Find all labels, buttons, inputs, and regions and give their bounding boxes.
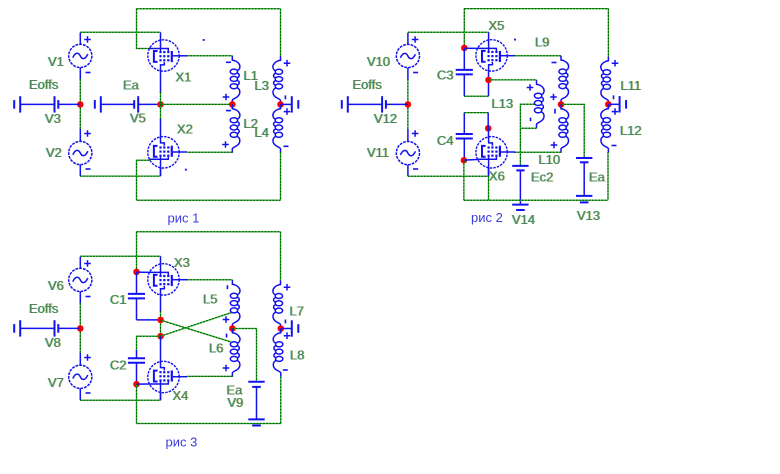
svg-text:V14: V14 (512, 212, 535, 227)
svg-text:V6: V6 (48, 278, 64, 293)
svg-text:V7: V7 (48, 375, 64, 390)
svg-text:X3: X3 (174, 255, 190, 270)
L5 minus tick (226, 285, 228, 289)
svg-text:X4: X4 (173, 388, 189, 403)
svg-text:L8: L8 (290, 348, 304, 363)
wire X1 cathode to node (160, 92, 162, 104)
node X4 grid / C2 bottom (133, 381, 140, 388)
wire V1 plus to X1 top pin (80, 31, 160, 33)
V11 plus mark (412, 130, 419, 137)
wire L2 bottom to X2 plate (231, 152, 233, 154)
wire L4 bottom down right edge (280, 152, 282, 200)
wire L13 bottom lead (520, 127, 536, 129)
capacitor C4 (456, 134, 473, 139)
wire X5 plate to L9 top (515, 55, 562, 57)
battery Ea/V9 short plate (252, 386, 261, 388)
source V10 bottom lead (407, 68, 409, 80)
node X5 cathode (485, 77, 492, 84)
wire L8 bottom down to bottom edge (280, 377, 282, 424)
battery plus mark fig1 (284, 108, 291, 115)
ac source V10 (396, 44, 419, 67)
inductor L1 (230, 56, 240, 104)
C2 top lead (136, 350, 138, 358)
V6 plus mark (84, 260, 91, 267)
tube X4 (flipped) (148, 360, 187, 400)
L8 minus mark (283, 369, 288, 371)
svg-text:C2: C2 (110, 358, 127, 373)
L2 plus mark (222, 141, 229, 148)
wire node B loop to C2 top (137, 336, 161, 351)
wire V1 minus to V2 plus (Eoffs node) (79, 79, 81, 130)
battery V14 long plate (512, 204, 528, 206)
V7 minus mark (86, 392, 91, 394)
source V11 top lead (407, 129, 409, 141)
source V1 top lead (79, 33, 81, 45)
inductor L11 (mirrored) (601, 56, 611, 104)
node L1/L2 centre tap (229, 101, 236, 108)
source V2 top lead (79, 129, 81, 141)
L13 plus mark (527, 84, 534, 91)
X5 grid lead stub (464, 47, 477, 49)
svg-text:L5: L5 (203, 292, 217, 307)
tube X5 (476, 32, 515, 72)
stray dot fig2 (514, 39, 516, 41)
ac source V7 (69, 365, 92, 388)
L3 minus tick (284, 95, 286, 99)
L7 plus mark (284, 284, 291, 291)
svg-text:Eoffs: Eoffs (29, 301, 59, 316)
L3 plus mark (284, 60, 291, 67)
battery minus tick fig2 (613, 95, 615, 99)
wire fig3 bottom edge (137, 423, 281, 425)
capacitor C1 (128, 294, 145, 299)
X6 grid lead stub (464, 159, 478, 162)
wire L6 bottom to X4 plate (187, 375, 232, 377)
V10 minus mark (413, 72, 418, 74)
V1 plus mark (84, 36, 91, 43)
source V7 top lead (79, 353, 81, 365)
X4 grid lead stub (137, 383, 150, 385)
wire tap row to Ea column (561, 104, 584, 158)
node Eoffs junction fig1 (77, 101, 84, 108)
wire fig2 left top vertical to grid node (463, 9, 465, 48)
L13 minus tick (530, 118, 532, 122)
wire diagonal node B to L5 bottom (161, 312, 232, 336)
tube X1 (148, 32, 187, 72)
wire V6 plus to X3 top pin (80, 255, 160, 257)
source V7 bottom lead (79, 389, 81, 401)
wire X6 cathode down to bottom edge (488, 176, 490, 200)
Ec2 to V14 lead (519, 170, 521, 204)
wire L13 mid tap to Ec2 column (520, 104, 534, 166)
wire fig2 top edge (464, 8, 608, 10)
wire fig1 right edge top (to L3) (280, 9, 282, 56)
svg-text:L13: L13 (492, 96, 514, 111)
node Eoffs junction fig3 (77, 325, 84, 332)
svg-text:V11: V11 (367, 145, 389, 160)
battery at L7/L8 tap (281, 320, 299, 336)
wire V10 minus to V11 plus (Eoffs node fig2) (407, 79, 409, 130)
svg-text:L6: L6 (209, 341, 223, 356)
wire fig1 top edge (137, 8, 281, 10)
battery Ea long plate (top) (576, 157, 592, 159)
source V1 bottom lead (79, 68, 81, 80)
X5 cathode pin (488, 72, 490, 80)
tube X6 (flipped) (476, 136, 515, 176)
source V11 bottom lead (407, 165, 409, 176)
ac source V6 (69, 268, 92, 291)
svg-text:V9: V9 (228, 395, 244, 410)
svg-text:C3: C3 (437, 68, 454, 83)
svg-text:L3: L3 (255, 78, 269, 93)
V11 minus mark (413, 168, 418, 170)
svg-text:X6: X6 (489, 169, 505, 184)
svg-text:X1: X1 (176, 70, 192, 85)
C4 bottom lead (463, 139, 465, 161)
svg-text:X2: X2 (177, 122, 193, 137)
battery Ea long plate (bottom) (576, 195, 592, 197)
node C (L5/L6 tap) (229, 325, 236, 332)
battery V14 short plate (516, 209, 525, 211)
X1 cathode pin (160, 72, 162, 93)
ac source V2 (69, 141, 92, 164)
tube X3 (148, 256, 187, 296)
battery at L3/L4 tap (281, 96, 299, 112)
wire tap C to Ea/V9 column (232, 329, 256, 382)
wire V10 plus to X5 top pin (408, 31, 489, 33)
L10 minus tick (554, 109, 556, 114)
svg-text:L9: L9 (535, 35, 549, 50)
svg-text:V8: V8 (45, 335, 61, 350)
inductor L10 (559, 104, 569, 152)
Ea battery body (583, 162, 585, 196)
node D (L7/L8 tap) (278, 325, 285, 332)
L4 minus mark (284, 145, 289, 147)
ac source V11 (396, 142, 419, 165)
wire bottom edge up to X2 grid (137, 160, 151, 200)
svg-text:L4: L4 (255, 125, 269, 140)
wire V11 minus to X6 cathode junction (408, 175, 489, 177)
inductor L6 (230, 329, 240, 377)
L5 plus mark (223, 316, 230, 323)
inductor L13 (534, 80, 544, 128)
C4 loop vertical to X6 top node (487, 113, 489, 129)
node X1 cathode / V5 junction (157, 101, 164, 108)
source V6 top lead (79, 257, 81, 269)
svg-text:V2: V2 (46, 145, 62, 160)
inductor L12 (mirrored) (601, 104, 611, 152)
wire L12 bottom down right edge (607, 152, 609, 200)
wire diagonal node A to L6 top (161, 320, 231, 342)
inductor L7 (mirrored) (273, 280, 283, 328)
wire C3 loop horizontal (464, 95, 488, 97)
L9 minus mark (552, 62, 557, 64)
X4 top pin lead (160, 336, 162, 361)
wire fig1 left edge down to X1 grid (137, 9, 151, 49)
capacitor C2 (128, 358, 145, 363)
svg-text:V1: V1 (48, 54, 64, 69)
Ea/V9 battery body (256, 387, 258, 420)
tube X2 (flipped) (148, 136, 187, 176)
V2 minus mark (86, 168, 91, 170)
battery V12 (Eoffs) (342, 96, 408, 112)
wire fig2 bottom edge (464, 199, 608, 201)
battery Ea/V9 long plate (top) (248, 381, 264, 383)
X6 cathode pin (488, 168, 490, 176)
stray dot near X1 (203, 39, 205, 41)
wire C4/grid column down to bottom edge (463, 160, 465, 200)
node X6 top / C4 (485, 125, 492, 132)
svg-text:V13: V13 (577, 208, 600, 223)
wire fig3 top edge (137, 231, 281, 233)
svg-text:X5: X5 (489, 18, 505, 33)
wire bottom edge up to X4 grid node (136, 384, 138, 423)
inductor L2 (230, 104, 240, 152)
svg-text:Ea: Ea (589, 170, 606, 185)
V7 plus mark (84, 354, 91, 361)
X3 cathode pin (160, 296, 162, 312)
L7 minus tick (284, 320, 286, 324)
battery Ea/V9 bottom short plate (252, 425, 261, 427)
inductor L9 (559, 56, 569, 104)
C1 top lead (136, 272, 138, 294)
wire L2 bottom to X2 plate lead (187, 151, 232, 153)
inductor L3 (mirrored) (273, 56, 283, 104)
svg-text:L12: L12 (620, 123, 642, 138)
wire V2 minus to X2 cathode (80, 175, 160, 177)
wire node row to L1/L2 tap (161, 103, 233, 105)
node Eoffs junction fig2 (405, 101, 412, 108)
L6 minus tick (226, 334, 228, 338)
node L3/L4 tap (277, 101, 284, 108)
svg-text:Ea: Ea (123, 78, 140, 93)
svg-text:рис 2: рис 2 (471, 210, 503, 225)
L10 plus mark (551, 142, 558, 149)
svg-text:рис 1: рис 1 (168, 211, 200, 226)
node L9/L10 tap (558, 101, 565, 108)
X4 cathode pin (160, 393, 162, 400)
C3 loop vertical to X5 cathode node (488, 80, 490, 96)
svg-text:C1: C1 (110, 292, 127, 307)
C3 bottom lead U-loop (463, 74, 465, 96)
V10 plus mark (412, 36, 419, 43)
battery V5 (Ea) (95, 96, 161, 112)
svg-text:рис 3: рис 3 (166, 435, 198, 450)
inductor L5 (230, 280, 240, 328)
node X6 grid / C4 bottom (461, 157, 468, 164)
L9 plus mark (550, 94, 557, 101)
wire X3 cathode down through nodes (160, 311, 162, 340)
node A (X3 cathode) (157, 317, 164, 324)
V2 plus mark (84, 130, 91, 137)
X3 grid lead stub (137, 271, 150, 273)
wire L10 bottom to X6 plate (514, 151, 562, 153)
battery V8 (Eoffs) (14, 320, 80, 336)
L12 minus mark (612, 145, 617, 147)
wire X3 plate to L5 top (187, 279, 232, 281)
source V10 top lead (407, 33, 409, 45)
V6 minus mark (86, 296, 91, 298)
stray dot near X2 (185, 169, 187, 171)
node L11/L12 tap (605, 101, 612, 108)
svg-text:V10: V10 (367, 54, 390, 69)
svg-text:Eoffs: Eoffs (29, 77, 59, 92)
svg-text:Eoffs: Eoffs (353, 77, 383, 92)
L1 minus mark (226, 61, 231, 63)
battery Ea short plate (580, 161, 589, 163)
svg-text:L10: L10 (539, 152, 561, 167)
V1 minus mark (86, 72, 91, 74)
battery plus mark fig2 (612, 108, 619, 115)
svg-text:L7: L7 (290, 304, 304, 319)
ac source V1 (69, 44, 92, 67)
wire fig3 left vertical to grid node (136, 232, 138, 272)
L11 plus mark (612, 60, 619, 67)
battery V3 (Eoffs) (14, 96, 80, 112)
svg-text:V12: V12 (374, 111, 397, 126)
battery Ec2 plates (512, 166, 528, 171)
svg-text:V3: V3 (45, 111, 61, 126)
svg-text:C4: C4 (437, 133, 454, 148)
C4 top lead (463, 113, 465, 134)
L2 minus mark (226, 110, 231, 112)
C3 top lead (463, 48, 465, 70)
L6 plus mark (223, 365, 230, 372)
battery Ea bottom short plate (580, 201, 589, 203)
inductor L4 (mirrored) (273, 104, 283, 152)
node X3 grid / C1 top (133, 269, 140, 276)
svg-text:V5: V5 (130, 111, 146, 126)
L1 plus mark (223, 94, 230, 101)
inductor L8 (mirrored) (273, 329, 283, 377)
source V6 bottom lead (79, 292, 81, 304)
X2 cathode pin (160, 168, 162, 176)
wire C4 top loop horizontal (464, 112, 488, 114)
wire fig1 bottom edge (137, 199, 281, 201)
battery Ea/V9 long plate (bottom) (248, 418, 264, 420)
wire V6 minus to V7 plus (Eoffs node fig3) (79, 303, 81, 354)
wire node to X2 top pin (160, 104, 162, 120)
X6 top pin lead (488, 128, 490, 136)
svg-text:Ec2: Ec2 (531, 170, 553, 185)
source V2 bottom lead (79, 165, 81, 176)
wire X1 plate to L1 top (187, 55, 232, 57)
node X5 grid / C3 top (461, 45, 468, 52)
svg-text:L11: L11 (621, 78, 642, 93)
C1 bottom lead (136, 298, 138, 320)
wire V7 minus to X4 cathode (80, 399, 160, 401)
X2 top pin lead (160, 119, 162, 136)
battery plus mark fig3 (284, 332, 291, 339)
C1 bottom lead horizontal to node A (137, 319, 161, 321)
wire fig2 right edge top (to L11) (607, 9, 609, 57)
wire fig3 right edge top (to L7) (280, 232, 282, 280)
wire X5 cathode to L13 top (489, 79, 537, 81)
node B (X4 top) (157, 333, 164, 340)
C2 bottom lead (136, 363, 138, 385)
battery at L11/L12 tap (608, 96, 626, 112)
capacitor C3 (456, 70, 473, 75)
